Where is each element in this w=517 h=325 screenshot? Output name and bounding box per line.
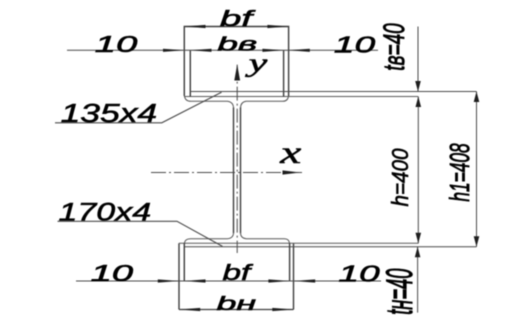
svg-text:10: 10: [90, 260, 133, 286]
leader line for 135x4: [55, 92, 222, 123]
arrow 10-right bottom pointing left: [294, 279, 315, 282]
svg-text:tв=40: tв=40: [378, 23, 411, 70]
dimension t_v=40 line: [417, 27, 419, 92]
svg-text:135x4: 135x4: [61, 99, 158, 128]
arrow 10-left pointing right: [163, 49, 184, 52]
bottom flange plate bn sides: [179, 243, 294, 309]
dimension bn on flange bottom edge: [179, 309, 294, 311]
bottom inner plate top edge and h1 extension line: [184, 246, 476, 248]
y axis arrow: [234, 65, 240, 81]
svg-text:bf: bf: [220, 5, 256, 31]
dimension h=400 line: [417, 97, 419, 244]
arrow b_v left: [190, 49, 211, 52]
top flange bottom edge line: [184, 96, 418, 98]
svg-text:bf: bf: [223, 260, 254, 285]
top flange plate bf outline: [184, 27, 288, 97]
web right edge: [240, 108, 242, 234]
top inner plate bottom edge and h1 extension line: [190, 91, 476, 93]
bottom 170x4 plate top side with fillets into web: [184, 233, 233, 244]
arrow 10-right pointing left: [289, 49, 310, 52]
svg-text:h=400: h=400: [387, 148, 413, 207]
svg-text:y: y: [245, 48, 268, 77]
dimension bf top arrows: [184, 25, 205, 28]
arrow b_v right: [262, 49, 283, 52]
x axis arrow: [283, 170, 301, 174]
dimension line b_v with 10 and 10 top: [67, 49, 378, 51]
svg-text:x: x: [279, 134, 301, 170]
svg-text:bн: bн: [216, 293, 256, 315]
svg-text:10: 10: [95, 31, 138, 57]
dimension h1=408 line: [476, 92, 478, 247]
top 135x4 plate underside with fillets into web: [184, 96, 233, 108]
top inner plate b_v right side: [283, 50, 285, 96]
dimension t_n=40 line: [417, 247, 419, 313]
web left edge: [233, 108, 235, 234]
svg-text:170x4: 170x4: [59, 199, 152, 227]
x axis dash-dot: [151, 172, 302, 174]
bottom inner plate bf right side: [289, 243, 291, 281]
arrow 10-left bottom pointing right: [158, 279, 179, 282]
leader line for 170x4: [58, 221, 223, 246]
svg-text:10: 10: [338, 261, 379, 287]
svg-text:h1=408: h1=408: [444, 143, 475, 201]
arrow bf-right bottom: [268, 279, 289, 282]
bottom flange top edge and h extension line: [179, 242, 419, 244]
arrow bf-left bottom: [184, 279, 205, 282]
y axis dash-dot centerline: [236, 65, 238, 253]
top inner plate b_v left side: [189, 50, 191, 96]
svg-text:10: 10: [334, 32, 375, 58]
svg-text:tн=40: tн=40: [380, 269, 420, 315]
dimension line bf with 10 and 10 bottom: [76, 280, 381, 282]
bottom inner plate bf left side: [183, 243, 185, 281]
